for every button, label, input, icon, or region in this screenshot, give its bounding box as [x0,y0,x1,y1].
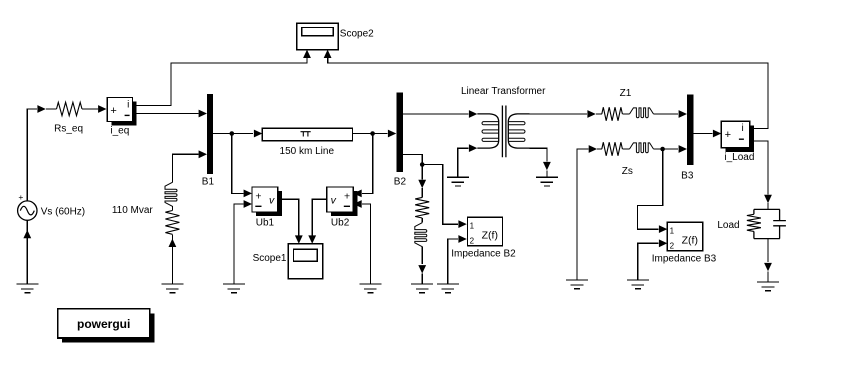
label i_eq [110,125,129,136]
svg-text:v: v [331,194,337,206]
inductor of Z1 [630,108,654,118]
parallel RC load block [747,209,786,238]
wire B3 to i_Load [694,133,713,135]
label Impedance B3 [652,254,717,265]
wire B1 node down to Ub1 plus input [232,134,244,194]
svg-text:1: 1 [470,221,475,230]
arrow into bus B2 [388,130,396,138]
AC voltage source Vs circle [18,201,37,220]
arrow into Ub2 plus input [353,190,361,198]
scope block Scope2 [297,23,339,49]
bus bar B3 [687,95,694,165]
wire arrow to resistor B2 shunt [421,188,423,197]
svg-text:Linear Transformer: Linear Transformer [461,86,546,97]
ground at transformer primary [447,177,469,186]
ground below B2 shunt branch [411,284,433,293]
wire arrow to ground stub [546,170,548,177]
label B1 [202,176,215,187]
arrow into bus B3 from Z1 [679,110,687,118]
svg-text:2: 2 [470,237,475,246]
label Load [717,220,739,231]
ground below Vs [16,284,38,293]
svg-text:Impedance B3: Impedance B3 [652,254,717,265]
resistor Rs_eq [57,102,83,115]
ground at Impedance B3 input 2 [627,280,649,289]
wire B2 tap to Impedance B2 input 1 [422,165,458,225]
arrow into bus B3 from Zs [679,145,687,153]
arrow into bus B1 from i_eq [199,110,207,118]
arrow into Scope2 input 2 [324,50,332,58]
wire Z1 to B3 [654,113,679,115]
arrow up into Vs bottom port [23,230,31,238]
wire from Vs bottom to ground [26,220,28,284]
svg-text:Load: Load [717,220,739,231]
svg-text:Z(f): Z(f) [482,229,498,241]
label Linear Transformer [461,86,546,97]
wire arrow to resistor [46,108,57,110]
svg-text:i: i [741,123,743,134]
wire Load to ground [767,239,769,262]
inductor of B2 shunt branch [415,223,427,247]
arrow into Scope1 input 2 [308,235,316,243]
svg-text:Zs: Zs [622,166,633,177]
label B3 [681,170,694,181]
wire ground up to Ub2 minus input [362,204,371,284]
label Ub2 [331,218,350,229]
label 150 km Line [280,146,335,157]
svg-text:Scope2: Scope2 [340,29,374,40]
arrow into Impedance B2 input 2 [458,235,466,243]
ground below Load [757,282,779,291]
wire i_eq signal output to B1 [133,113,199,115]
arrow into transformer primary top [469,110,477,118]
wire 110 Mvar branch to B1 [172,154,198,182]
voltage measurement block Ub1 [252,187,282,216]
wire B2 to transformer primary top [403,113,469,115]
label Rs_eq [54,124,83,135]
arrow down into transformer secondary ground [543,162,551,170]
wire Ub2 output to Scope1 [312,199,327,235]
svg-text:i: i [127,99,129,110]
ground below 110 Mvar branch [161,284,183,293]
impedance measurement block Impedance B3 [667,222,703,250]
wire B1 to 150 km Line [213,133,253,135]
arrow into Impedance B2 input 1 [458,220,466,228]
wire ground to Impedance B2 input 2 [448,239,458,284]
arrow on Zs wire [589,145,597,153]
svg-text:2: 2 [670,242,675,251]
pi-section line block 150 km Line [262,128,352,141]
svg-text:+: + [110,105,116,117]
arrow into Ub1 minus input [244,200,252,208]
arrow into i_eq input [98,105,106,113]
resistor of 110 Mvar branch [165,211,179,235]
node junction before B2 [370,131,375,136]
wire arrow stub to Load ground [767,271,769,282]
wire ground up to Ub1 minus input [234,204,244,284]
current measurement block i_Load [721,121,754,152]
svg-text:+: + [725,129,731,141]
svg-text:+: + [18,192,23,202]
ground below Ub1 [223,284,245,293]
wire Zs resistor to inductor [622,148,629,150]
plus sign of source Vs [18,192,23,202]
label Scope1 [253,253,287,264]
arrow into bus B1 from 110 Mvar [199,150,207,158]
wire arrow to Z1 resistor [596,113,602,115]
wire Ub1 output to Scope1 [278,199,299,235]
resistor of Zs [602,142,623,155]
arrow into 150 km Line [254,130,262,138]
wire B2 node down to Ub2 plus input [362,134,373,194]
ground below Ub2 [359,284,381,293]
current measurement block i_eq [107,98,137,126]
svg-text:150 km Line: 150 km Line [280,146,335,157]
label Scope2 [340,29,374,40]
svg-text:B3: B3 [681,170,694,181]
arrow down into Load [764,195,772,203]
svg-text:v: v [269,194,275,206]
powergui block [58,309,155,343]
wire i_Load minus output down to Load [750,141,768,195]
arrow down into ground below B2 branch [418,265,426,273]
wire resistor to inductor B2 shunt [421,218,423,223]
svg-text:i_Load: i_Load [724,152,754,163]
arrow into i_Load input [713,130,721,138]
svg-text:Rs_eq: Rs_eq [54,124,83,135]
svg-text:Z1: Z1 [620,88,632,99]
bus bar B1 [207,94,213,174]
wire arrow to Load top bar [767,203,769,209]
arrow on wire after Vs [37,105,45,113]
linear transformer windings and core [477,106,529,158]
wire ground up to Zs [577,149,588,280]
ground at transformer secondary [536,177,558,186]
label i_Load [724,152,754,163]
svg-text:i_eq: i_eq [110,125,129,136]
wire ground to Impedance B3 input 2 [638,243,659,280]
label Z1 [620,88,632,99]
svg-text:+: + [255,190,261,202]
wire B2 shunt branch to ground [421,247,423,264]
label 110 Mvar [112,205,154,216]
wire Zs to B3 [654,148,679,150]
arrow up into 110 Mvar branch bottom [169,239,177,247]
arrow into Ub1 plus input [244,190,252,198]
wire arrow to Zs resistor [597,148,602,150]
svg-text:B2: B2 [394,177,407,188]
svg-text:1: 1 [670,226,675,235]
ground below Zs [566,280,588,289]
arrow into transformer primary bottom [469,144,477,152]
wire Zs node to Impedance B3 input 1 [638,149,663,229]
svg-text:Impedance B2: Impedance B2 [451,248,516,259]
wire arrow stub to ground B2 branch [421,274,423,285]
wire from i_eq current output up and across to Scope2 input 1 [133,57,308,106]
wire ground to transformer primary bottom [458,148,469,177]
node junction on Zs output [660,147,665,152]
arrow into Scope2 input 1 [303,50,311,58]
node junction on B1 output [230,131,235,136]
arrow down into ground below Load [764,263,772,271]
wire transformer secondary bottom to ground [530,148,547,161]
wire from i_Load current output up and across to Scope2 input 2 [328,57,768,129]
svg-text:powergui: powergui [77,317,130,331]
svg-text:Ub2: Ub2 [331,218,350,229]
svg-text:B1: B1 [202,176,215,187]
svg-text:+: + [344,190,350,202]
wire from Vs up to Rs_eq [27,109,37,201]
wire resistor to i_eq [82,108,98,110]
svg-text:Vs (60Hz): Vs (60Hz) [41,206,85,217]
arrow down into B2 shunt branch [418,180,426,188]
label Zs [622,166,633,177]
label B2 [394,177,407,188]
arrow into Impedance B3 input 1 [659,225,667,233]
arrow into Scope1 input 1 [295,235,303,243]
wire Z1 resistor to inductor [622,113,629,115]
label Impedance B2 [451,248,516,259]
node junction at B2 tap [420,162,425,167]
resistor of B2 shunt branch [415,197,429,218]
resistor of Z1 [602,107,623,120]
svg-text:Z(f): Z(f) [682,234,698,246]
impedance measurement block Impedance B2 [468,217,503,245]
inductor of 110 Mvar branch [165,182,177,206]
inductor of Zs [630,143,654,153]
label Vs (60Hz) [41,206,85,217]
ground at Impedance B2 input 2 [437,284,459,293]
svg-text:110 Mvar: 110 Mvar [112,205,154,216]
wire transformer secondary to Z1 [530,113,588,115]
label Ub1 [256,218,275,229]
wire 150 km Line to B2 [353,133,388,135]
scope block Scope1 [288,244,322,279]
arrow on Z1 wire [587,110,595,118]
arrow into Impedance B3 input 2 [659,239,667,247]
wire inductor to resistor 110 Mvar [171,206,173,210]
wire 110 Mvar branch to ground [171,234,173,284]
arrow into Ub2 minus input [353,200,361,208]
voltage measurement block Ub2 [327,187,358,216]
wire B2 lower tap [403,155,422,180]
bus bar B2 [396,92,403,172]
svg-text:Scope1: Scope1 [253,253,287,264]
svg-text:Ub1: Ub1 [256,218,275,229]
